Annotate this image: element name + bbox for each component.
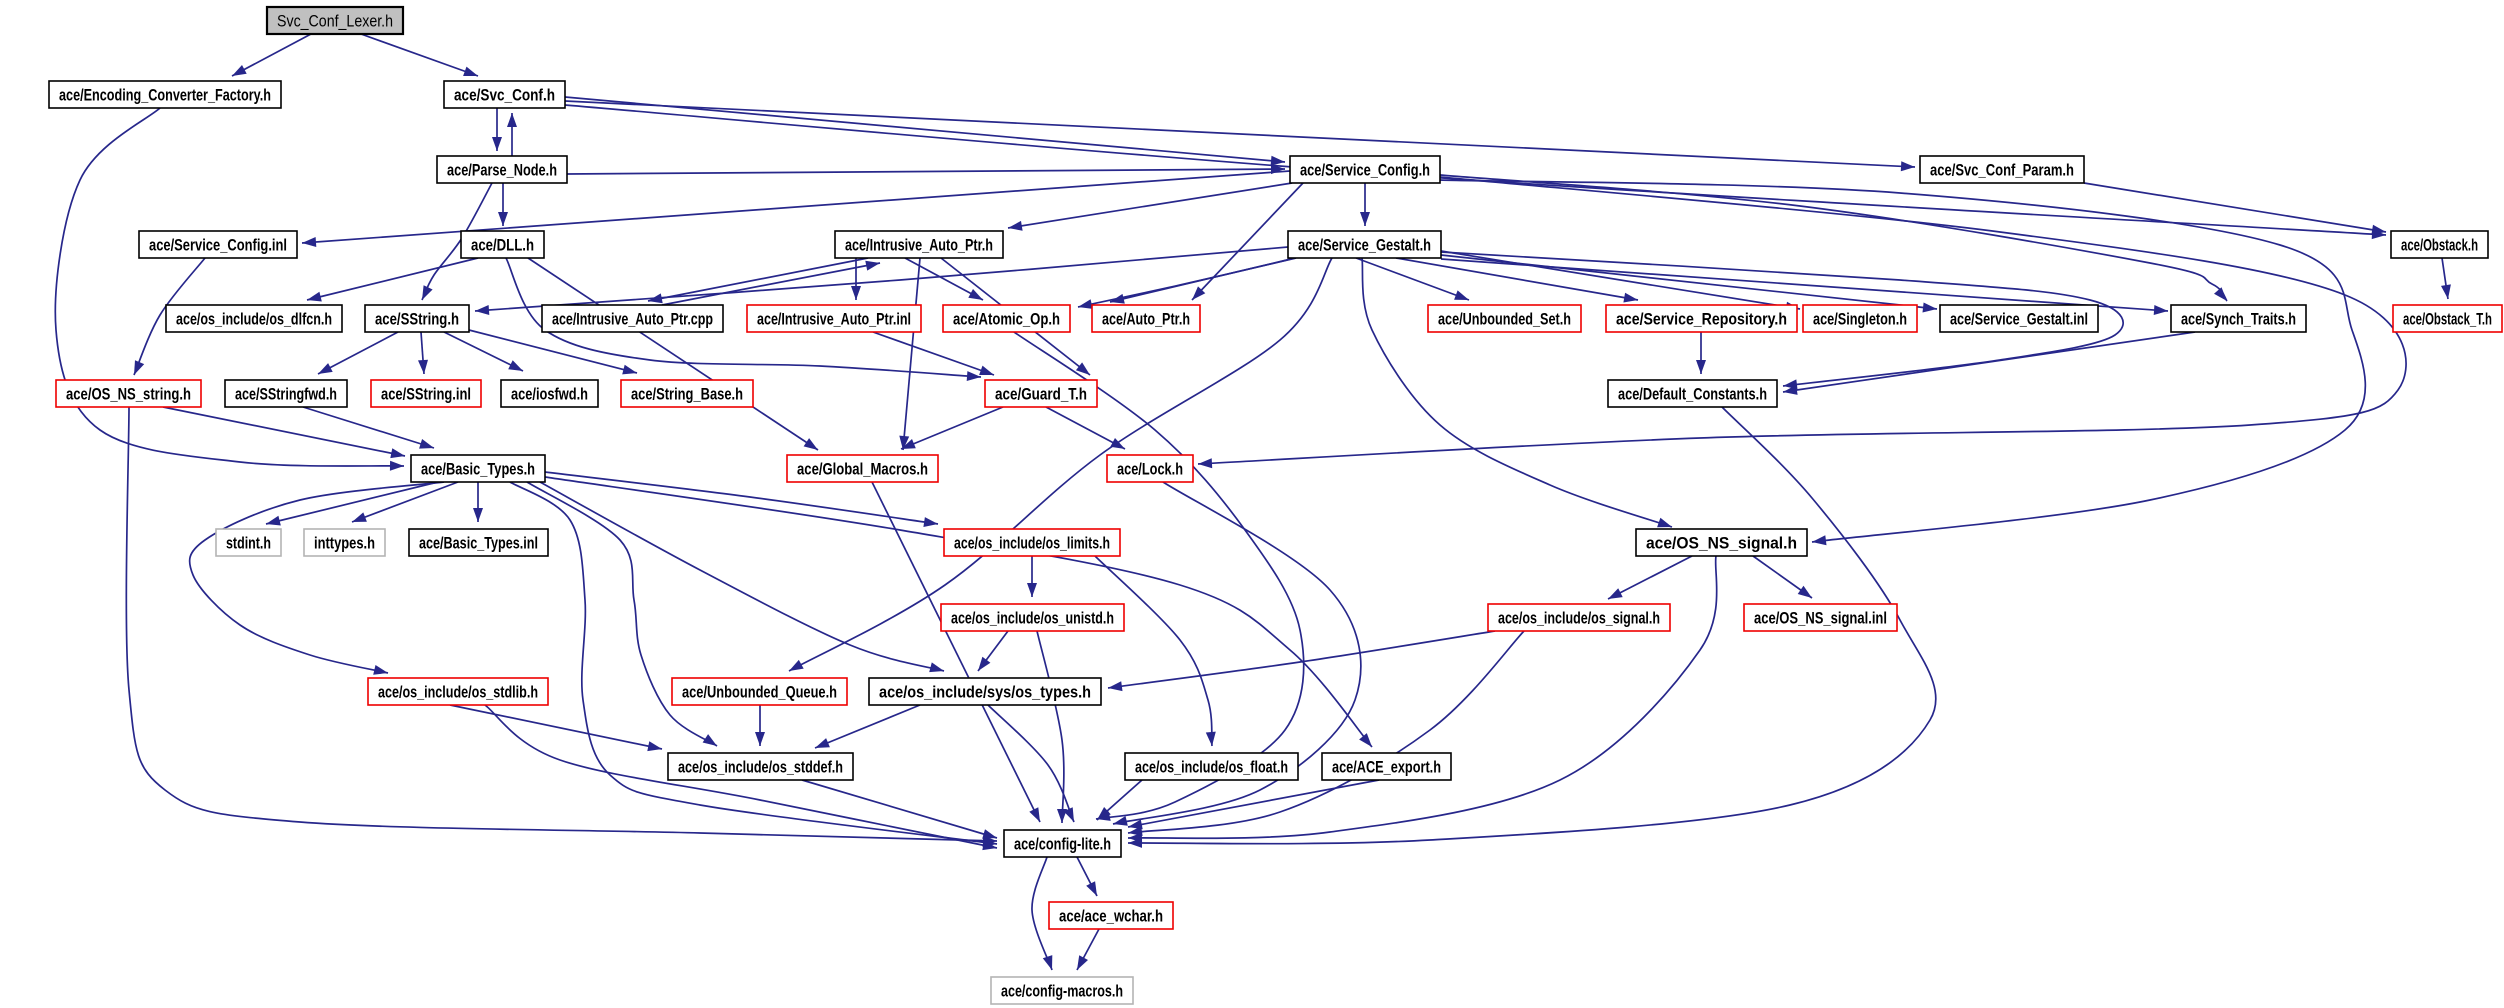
- edge SString.h->SString.inl: [418, 332, 428, 374]
- node ace/Singleton.h: [1803, 305, 1917, 332]
- svg-text:ace/Intrusive_Auto_Ptr.inl: ace/Intrusive_Auto_Ptr.inl: [757, 310, 911, 329]
- svg-text:ace/os_include/os_limits.h: ace/os_include/os_limits.h: [954, 534, 1110, 553]
- node ace/Auto_Ptr.h: [1092, 305, 1200, 332]
- edge Service_Config.h->Intrusive_Auto_Ptr.h: [1008, 183, 1292, 231]
- node Svc_Conf_Lexer.h: [267, 7, 403, 34]
- svg-text:ace/Synch_Traits.h: ace/Synch_Traits.h: [2181, 310, 2296, 329]
- svg-text:ace/Auto_Ptr.h: ace/Auto_Ptr.h: [1102, 310, 1190, 329]
- svg-text:Svc_Conf_Lexer.h: Svc_Conf_Lexer.h: [277, 12, 393, 31]
- edge Service_Gestalt.h->Service_Repository.h: [1396, 258, 1638, 303]
- edge Basic_Types.h->os_include/os_stddef.h: [527, 482, 717, 746]
- edge Guard_T.h->Lock.h: [1046, 407, 1125, 449]
- edge OS_NS_string.h->Basic_Types.h: [163, 407, 405, 458]
- svg-text:ace/os_include/os_float.h: ace/os_include/os_float.h: [1135, 758, 1288, 777]
- node ace/OS_NS_signal.inl: [1744, 604, 1897, 631]
- edge os_signal.h->config-lite.h: [1128, 631, 1524, 836]
- svg-text:ace/iosfwd.h: ace/iosfwd.h: [511, 385, 588, 404]
- edge os_limits.h->os_unistd.h: [1027, 556, 1037, 597]
- svg-text:ace/Basic_Types.inl: ace/Basic_Types.inl: [419, 534, 538, 553]
- edge Service_Gestalt.h->SString.h: [475, 247, 1288, 315]
- edge Intrusive_Auto_Ptr.h->Guard_T.h: [941, 258, 1090, 375]
- edge SString.h->String_Base.h: [465, 329, 637, 374]
- svg-text:ace/Obstack_T.h: ace/Obstack_T.h: [2403, 310, 2492, 329]
- edge Service_Config.h->OS_NS_signal.h: [1440, 180, 2365, 545]
- edge os_float.h->config-lite.h: [1097, 780, 1142, 820]
- edge sys/os_types.h->config-lite.h: [988, 705, 1074, 822]
- svg-text:ace/Intrusive_Auto_Ptr.cpp: ace/Intrusive_Auto_Ptr.cpp: [552, 310, 713, 329]
- edge os_stddef.h->config-lite.h: [802, 780, 997, 839]
- node stdint.h: [216, 529, 281, 556]
- edge config-lite.h->ace_wchar.h: [1077, 857, 1097, 896]
- node ace/Service_Config.inl: [139, 231, 297, 258]
- edge DLL.h->Global_Macros.h: [528, 258, 818, 450]
- svg-text:ace/os_include/os_unistd.h: ace/os_include/os_unistd.h: [951, 609, 1114, 628]
- svg-text:ace/Lock.h: ace/Lock.h: [1117, 460, 1183, 479]
- edge Basic_Types.h->Basic_Types.inl: [473, 482, 483, 522]
- svg-text:ace/config-lite.h: ace/config-lite.h: [1014, 835, 1111, 854]
- edge Parse_Node.h->Service_Config.h: [567, 164, 1285, 174]
- edge Svc_Conf.h->Obstack.h: [565, 105, 2386, 239]
- node ace/config-macros.h: [991, 977, 1133, 1004]
- edge Encoding_Converter_Factory.h->Basic_Types.h: [55, 108, 404, 471]
- edge Service_Config.h->Service_Config.inl: [302, 171, 1290, 247]
- edge os_stdlib.h->os_stddef.h: [450, 705, 662, 751]
- edge Default_Constants.h->config-lite.h: [1128, 407, 1936, 848]
- node ace/Global_Macros.h: [787, 455, 938, 482]
- edge OS_NS_signal.h->OS_NS_signal.inl: [1753, 556, 1812, 598]
- edge Svc_Conf_Lexer.h->Encoding_Converter_Factory.h: [232, 34, 311, 76]
- svg-text:ace/DLL.h: ace/DLL.h: [471, 236, 534, 255]
- edge Intrusive_Auto_Ptr.h->Atomic_Op.h: [905, 258, 983, 300]
- node ace/SString.inl: [371, 380, 481, 407]
- svg-text:ace/Default_Constants.h: ace/Default_Constants.h: [1618, 385, 1767, 404]
- node ace/os_include/os_limits.h: [944, 529, 1120, 556]
- edge Basic_Types.h->sys/os_types.h: [540, 482, 944, 672]
- svg-text:ace/String_Base.h: ace/String_Base.h: [631, 385, 743, 404]
- svg-text:ace/Service_Repository.h: ace/Service_Repository.h: [1616, 310, 1787, 329]
- edge Basic_Types.h->stdint.h: [266, 482, 438, 526]
- edge Basic_Types.h->config-lite.h: [510, 482, 997, 847]
- svg-text:stdint.h: stdint.h: [226, 534, 271, 553]
- node ace/Svc_Conf_Param.h: [1920, 156, 2084, 183]
- node ace/os_include/os_unistd.h: [941, 604, 1124, 631]
- svg-text:ace/OS_NS_string.h: ace/OS_NS_string.h: [66, 385, 191, 404]
- edge Svc_Conf_Lexer.h->Svc_Conf.h: [361, 34, 478, 76]
- edge config-lite.h->config-macros.h: [1032, 857, 1052, 970]
- edge Parse_Node.h->SString.h: [422, 183, 492, 300]
- node ace/ACE_export.h: [1322, 753, 1451, 780]
- node ace/OS_NS_string.h: [56, 380, 201, 407]
- node ace/os_include/os_float.h: [1125, 753, 1298, 780]
- node ace/Intrusive_Auto_Ptr.h: [835, 231, 1003, 258]
- edge Service_Config.h->Synch_Traits.h: [1440, 175, 2227, 301]
- node ace/Intrusive_Auto_Ptr.cpp: [542, 305, 723, 332]
- svg-text:ace/os_include/sys/os_types.h: ace/os_include/sys/os_types.h: [879, 683, 1091, 702]
- svg-text:inttypes.h: inttypes.h: [314, 534, 375, 553]
- svg-text:ace/Service_Config.h: ace/Service_Config.h: [1300, 161, 1430, 180]
- edge sys/os_types.h->os_stddef.h: [815, 705, 920, 748]
- node ace/Atomic_Op.h: [943, 305, 1070, 332]
- node inttypes.h: [304, 529, 385, 556]
- edge Guard_T.h->Global_Macros.h: [901, 407, 1003, 449]
- node ace/SStringfwd.h: [225, 380, 347, 407]
- edge SStringfwd.h->Basic_Types.h: [303, 407, 434, 449]
- edge os_signal.h->sys/os_types.h: [1108, 631, 1495, 691]
- svg-text:ace/ace_wchar.h: ace/ace_wchar.h: [1059, 907, 1163, 926]
- edge Service_Gestalt.h->Synch_Traits.h: [1441, 259, 2168, 315]
- svg-text:ace/Global_Macros.h: ace/Global_Macros.h: [797, 460, 928, 479]
- edge Svc_Conf.h->Service_Config.h: [565, 97, 1285, 166]
- node ace/iosfwd.h: [501, 380, 598, 407]
- edge DLL.h->Guard_T.h: [506, 258, 981, 381]
- svg-text:ace/Encoding_Converter_Factory: ace/Encoding_Converter_Factory.h: [59, 86, 271, 105]
- edge Obstack.h->Obstack_T.h: [2441, 258, 2451, 299]
- edge DLL.h->os_include/os_dlfcn.h: [307, 258, 478, 302]
- edge Service_Gestalt.h->Default_Constants.h: [1441, 252, 2123, 389]
- edge Intrusive_Auto_Ptr.h->Global_Macros.h: [899, 258, 920, 450]
- svg-text:ace/Basic_Types.h: ace/Basic_Types.h: [421, 460, 535, 479]
- svg-text:ace/Svc_Conf.h: ace/Svc_Conf.h: [454, 86, 555, 105]
- edge Basic_Types.h->inttypes.h: [352, 482, 458, 522]
- edge os_limits.h->os_float.h: [1095, 556, 1216, 746]
- svg-text:ace/Unbounded_Queue.h: ace/Unbounded_Queue.h: [682, 683, 837, 702]
- node ace/DLL.h: [461, 231, 544, 258]
- node ace/Unbounded_Set.h: [1428, 305, 1581, 332]
- edge Basic_Types.h->os_include/os_stdlib.h: [190, 482, 444, 675]
- svg-text:ace/Service_Gestalt.h: ace/Service_Gestalt.h: [1298, 236, 1431, 255]
- edge Intrusive_Auto_Ptr.h->Intrusive_Auto_Ptr.cpp: [648, 258, 868, 303]
- edge OS_NS_signal.h->os_signal.h: [1608, 556, 1692, 599]
- svg-text:ace/SString.h: ace/SString.h: [375, 310, 459, 329]
- svg-text:ace/os_include/os_stddef.h: ace/os_include/os_stddef.h: [678, 758, 843, 777]
- svg-text:ace/Parse_Node.h: ace/Parse_Node.h: [447, 161, 557, 180]
- svg-text:ace/OS_NS_signal.h: ace/OS_NS_signal.h: [1646, 534, 1797, 553]
- edge os_unistd.h->config-lite.h: [1037, 631, 1067, 823]
- edge Service_Config.inl->OS_NS_string.h: [134, 258, 205, 375]
- node ace/Basic_Types.h: [411, 455, 545, 482]
- edge os_unistd.h->sys/os_types.h: [978, 631, 1008, 671]
- edge Lock.h->config-lite.h: [1113, 482, 1361, 826]
- svg-text:ace/SStringfwd.h: ace/SStringfwd.h: [235, 385, 337, 404]
- svg-text:ace/ACE_export.h: ace/ACE_export.h: [1332, 758, 1441, 777]
- node ace/os_include/os_stddef.h: [668, 753, 853, 780]
- node ace/Svc_Conf.h: [444, 81, 565, 108]
- edge Service_Gestalt.h->Unbounded_Queue.h: [789, 258, 1332, 671]
- svg-text:ace/os_include/os_signal.h: ace/os_include/os_signal.h: [1498, 609, 1660, 628]
- edge Service_Config.h->Auto_Ptr.h: [1192, 183, 1303, 300]
- node ace/Service_Config.h: [1290, 156, 1440, 183]
- edge Service_Config.h->Service_Gestalt.h: [1360, 183, 1370, 226]
- edge SString.h->iosfwd.h: [444, 332, 523, 371]
- svg-text:ace/os_include/os_stdlib.h: ace/os_include/os_stdlib.h: [378, 683, 538, 702]
- node ace/Service_Repository.h: [1606, 305, 1797, 332]
- svg-text:ace/OS_NS_signal.inl: ace/OS_NS_signal.inl: [1754, 609, 1887, 628]
- svg-text:ace/Service_Config.inl: ace/Service_Config.inl: [149, 236, 287, 255]
- node ace/Basic_Types.inl: [409, 529, 548, 556]
- svg-text:ace/Svc_Conf_Param.h: ace/Svc_Conf_Param.h: [1930, 161, 2074, 180]
- svg-text:ace/Guard_T.h: ace/Guard_T.h: [995, 385, 1087, 404]
- svg-text:ace/SString.inl: ace/SString.inl: [381, 385, 471, 404]
- edge Svc_Conf.h->Svc_Conf_Param.h: [565, 101, 1915, 171]
- node ace/Service_Gestalt.inl: [1940, 305, 2098, 332]
- edge ace_wchar.h->config-macros.h: [1077, 929, 1099, 970]
- node ace/os_include/sys/os_types.h: [869, 678, 1101, 705]
- svg-text:ace/Service_Gestalt.inl: ace/Service_Gestalt.inl: [1950, 310, 2088, 329]
- edge Service_Gestalt.h->Atomic_Op.h: [1078, 258, 1296, 309]
- edge Service_Repository.h->Default_Constants.h: [1696, 332, 1706, 374]
- edge Intrusive_Auto_Ptr.inl->Guard_T.h: [873, 332, 994, 375]
- node ace/Service_Gestalt.h: [1288, 231, 1441, 258]
- node ace/os_include/os_dlfcn.h: [166, 305, 342, 332]
- node ace/OS_NS_signal.h: [1636, 529, 1807, 556]
- svg-text:ace/Intrusive_Auto_Ptr.h: ace/Intrusive_Auto_Ptr.h: [845, 236, 993, 255]
- edge SString.h->SStringfwd.h: [318, 332, 398, 374]
- node ace/Guard_T.h: [985, 380, 1097, 407]
- edge Service_Config.h->Lock.h: [1198, 177, 2406, 468]
- edge os_stdlib.h->config-lite.h: [485, 705, 997, 850]
- node ace/Parse_Node.h: [437, 156, 567, 183]
- node ace/Encoding_Converter_Factory.h: [49, 81, 281, 108]
- edge Intrusive_Auto_Ptr.h->Intrusive_Auto_Ptr.inl: [851, 258, 861, 300]
- node ace/Obstack.h: [2391, 231, 2488, 258]
- node ace/Lock.h: [1107, 455, 1193, 482]
- node ace/Unbounded_Queue.h: [672, 678, 847, 705]
- edge Intrusive_Auto_Ptr.cpp->Intrusive_Auto_Ptr.h: [662, 261, 880, 305]
- edge Atomic_Op.h->config-lite.h: [1014, 332, 1304, 821]
- edge Parse_Node.h->Svc_Conf.h: [507, 113, 517, 183]
- edge Svc_Conf_Param.h->Obstack.h: [2084, 183, 2386, 235]
- node ace/Intrusive_Auto_Ptr.inl: [747, 305, 921, 332]
- svg-text:ace/Obstack.h: ace/Obstack.h: [2401, 236, 2478, 255]
- svg-text:ace/os_include/os_dlfcn.h: ace/os_include/os_dlfcn.h: [176, 310, 332, 329]
- edge Svc_Conf.h->Parse_Node.h: [492, 108, 502, 151]
- edge Unbounded_Queue.h->os_stddef.h: [755, 705, 765, 746]
- edge Basic_Types.h->ACE_export.h: [545, 477, 1372, 747]
- svg-text:ace/config-macros.h: ace/config-macros.h: [1001, 982, 1123, 1001]
- edge OS_NS_signal.h->config-lite.h: [1128, 556, 1717, 843]
- svg-text:ace/Singleton.h: ace/Singleton.h: [1813, 310, 1907, 329]
- edge Service_Gestalt.h->Service_Gestalt.inl: [1441, 255, 1937, 313]
- edge Parse_Node.h->DLL.h: [498, 183, 508, 226]
- node ace/Synch_Traits.h: [2171, 305, 2306, 332]
- node ace/ace_wchar.h: [1049, 902, 1173, 929]
- edge Service_Gestalt.h->OS_NS_signal.h: [1362, 258, 1672, 527]
- node ace/SString.h: [365, 305, 469, 332]
- node ace/Default_Constants.h: [1608, 380, 1777, 407]
- edge Synch_Traits.h->Default_Constants.h: [1783, 332, 2195, 395]
- edge Global_Macros.h->config-lite.h: [872, 482, 1040, 822]
- svg-text:ace/Unbounded_Set.h: ace/Unbounded_Set.h: [1438, 310, 1571, 329]
- edge Service_Gestalt.h->Auto_Ptr.h: [1110, 258, 1295, 304]
- edge Service_Gestalt.h->Singleton.h: [1441, 251, 1800, 312]
- edge ACE_export.h->config-lite.h: [1128, 780, 1379, 829]
- node ace/os_include/os_signal.h: [1488, 604, 1670, 631]
- node ace/Obstack_T.h: [2393, 305, 2502, 332]
- node ace/config-lite.h: [1004, 830, 1121, 857]
- edge Service_Gestalt.h->Unbounded_Set.h: [1356, 258, 1469, 300]
- node ace/String_Base.h: [621, 380, 753, 407]
- svg-text:ace/Atomic_Op.h: ace/Atomic_Op.h: [953, 310, 1060, 329]
- edge OS_NS_string.h->config-lite.h: [126, 407, 997, 846]
- edge Basic_Types.h->os_include/os_limits.h: [545, 472, 938, 527]
- node ace/os_include/os_stdlib.h: [368, 678, 548, 705]
